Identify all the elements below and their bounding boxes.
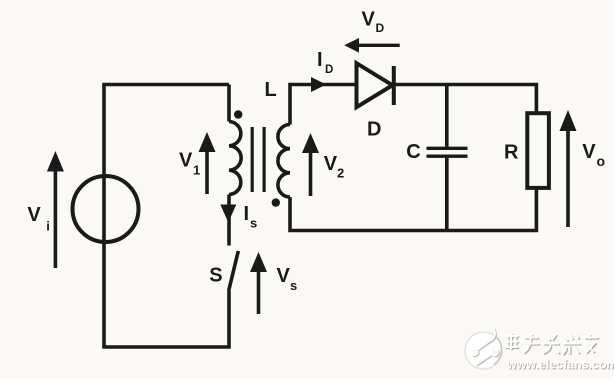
svg-text:I: I xyxy=(244,203,250,225)
wire secondary bottom rail xyxy=(290,188,536,231)
arrow Is current xyxy=(220,205,236,223)
svg-text:L: L xyxy=(265,79,277,101)
svg-text:www.elecfans.com: www.elecfans.com xyxy=(506,358,614,372)
polarity dot primary xyxy=(234,110,242,118)
watermark logo elecfans xyxy=(465,325,502,370)
svg-text:V: V xyxy=(179,149,193,171)
resistor R body xyxy=(527,113,549,188)
svg-text:s: s xyxy=(290,278,297,293)
svg-text:R: R xyxy=(504,142,519,164)
svg-text:s: s xyxy=(250,215,257,230)
wire input loop left xyxy=(104,85,229,348)
wire capacitor bottom xyxy=(445,158,449,231)
wire secondary top to diode xyxy=(290,85,356,125)
arrow V1 xyxy=(199,132,216,194)
arrow VD xyxy=(344,38,400,53)
svg-text:V: V xyxy=(582,141,596,163)
diode D cathode bar xyxy=(392,66,396,105)
watermark text dianzifashaoyou xyxy=(505,333,599,355)
svg-text:D: D xyxy=(367,119,381,141)
svg-text:i: i xyxy=(46,218,50,233)
svg-text:V: V xyxy=(277,265,291,287)
arrow Vi xyxy=(47,151,64,268)
svg-text:D: D xyxy=(376,21,385,35)
svg-text:V: V xyxy=(27,204,41,226)
svg-text:V: V xyxy=(324,153,338,175)
svg-text:1: 1 xyxy=(193,163,200,178)
diode D triangle xyxy=(357,63,393,107)
arrow V2 xyxy=(302,133,319,196)
polarity dot secondary xyxy=(272,198,280,206)
wire diode to resistor xyxy=(394,85,537,114)
wire primary bottom to switch xyxy=(227,195,231,246)
arrow ID current xyxy=(311,77,326,92)
wire capacitor top xyxy=(445,85,449,147)
transformer primary winding xyxy=(229,122,241,195)
wire primary top xyxy=(227,85,231,122)
svg-text:o: o xyxy=(597,153,606,169)
svg-text:S: S xyxy=(209,264,222,286)
arrow Vo xyxy=(560,110,577,227)
transformer secondary winding xyxy=(278,125,290,198)
svg-text:2: 2 xyxy=(337,165,344,180)
svg-text:D: D xyxy=(325,64,333,76)
transformer core bars xyxy=(252,127,264,192)
svg-text:V: V xyxy=(362,9,376,31)
svg-text:C: C xyxy=(406,141,420,163)
svg-text:I: I xyxy=(317,49,323,71)
arrow Vs xyxy=(250,252,267,314)
switch S blade xyxy=(229,251,239,291)
voltage source Vi circle xyxy=(73,176,139,242)
capacitor C plates xyxy=(427,148,468,156)
